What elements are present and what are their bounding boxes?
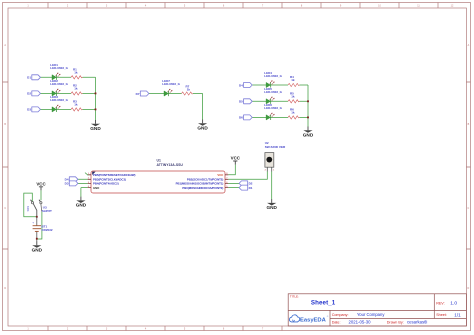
- svg-text:Sheet_1: Sheet_1: [311, 299, 336, 306]
- svg-text:C: C: [468, 207, 470, 210]
- svg-text:Company:: Company:: [332, 313, 349, 317]
- svg-text:1.0: 1.0: [450, 301, 457, 307]
- svg-text:1k: 1k: [74, 86, 78, 90]
- svg-text:1/1: 1/1: [454, 312, 461, 317]
- svg-text:D6: D6: [239, 116, 243, 120]
- svg-text:1k: 1k: [291, 94, 295, 98]
- svg-text:D: D: [4, 287, 6, 290]
- svg-text:VCC: VCC: [36, 182, 46, 187]
- svg-text:1k: 1k: [74, 70, 78, 74]
- svg-text:Sheet:: Sheet:: [436, 313, 447, 317]
- svg-text:1k: 1k: [74, 102, 78, 106]
- svg-text:D1: D1: [249, 186, 253, 190]
- svg-text:VCC: VCC: [217, 173, 223, 177]
- svg-text:LED-0603_G: LED-0603_G: [264, 74, 282, 78]
- svg-text:LED-0603_G: LED-0603_G: [162, 82, 180, 86]
- svg-text:Your Company: Your Company: [357, 312, 385, 317]
- svg-text:LED-0603_G: LED-0603_G: [50, 98, 68, 102]
- svg-text:PB0(MOSI/AIN0/OC0A/PCINT0): PB0(MOSI/AIN0/OC0A/PCINT0): [182, 186, 223, 190]
- svg-text:1k: 1k: [291, 110, 295, 114]
- svg-text:SW-520D VER: SW-520D VER: [265, 145, 286, 149]
- svg-text:SLIP2T: SLIP2T: [42, 209, 52, 213]
- svg-text:+: +: [32, 220, 34, 224]
- svg-text:Drawn By:: Drawn By:: [387, 321, 404, 325]
- svg-text:REV:: REV:: [436, 301, 444, 305]
- svg-text:GND: GND: [90, 126, 101, 131]
- svg-text:GND: GND: [76, 203, 87, 208]
- svg-text:D1: D1: [27, 76, 31, 80]
- svg-text:GND: GND: [303, 132, 314, 137]
- svg-text:D: D: [468, 287, 470, 290]
- svg-text:D3: D3: [27, 108, 31, 112]
- svg-text:D7: D7: [136, 92, 140, 96]
- svg-text:D3: D3: [65, 182, 69, 186]
- svg-text:EasyEDA: EasyEDA: [300, 317, 327, 323]
- svg-text:cesarkastli: cesarkastli: [407, 320, 427, 325]
- svg-text:PB5(PCINT5/RESET#/ADC0/dW): PB5(PCINT5/RESET#/ADC0/dW): [93, 173, 135, 177]
- svg-text:VCC: VCC: [231, 156, 241, 161]
- svg-text:LED-0603_G: LED-0603_G: [50, 82, 68, 86]
- svg-text:1k: 1k: [291, 78, 295, 82]
- svg-text:1k: 1k: [187, 88, 191, 92]
- svg-text:GND: GND: [93, 186, 99, 190]
- svg-text:LED-0603_G: LED-0603_G: [264, 106, 282, 110]
- svg-text:GND: GND: [197, 126, 208, 131]
- svg-text:LED-0603_G: LED-0603_G: [264, 90, 282, 94]
- svg-text:D2: D2: [27, 92, 31, 96]
- svg-text:D5: D5: [239, 100, 243, 104]
- svg-text:GND: GND: [266, 205, 277, 210]
- svg-text:2021-05-30: 2021-05-30: [349, 320, 372, 325]
- svg-text:LED-0603_G: LED-0603_G: [50, 66, 68, 70]
- svg-text:D4: D4: [239, 83, 243, 87]
- svg-text:TITLE:: TITLE:: [290, 295, 299, 299]
- svg-text:SW1: SW1: [26, 205, 30, 211]
- svg-text:Date:: Date:: [332, 321, 341, 325]
- svg-text:C: C: [4, 207, 6, 210]
- svg-text:CR2032: CR2032: [42, 228, 53, 232]
- svg-text:ATTINY13A-SSU: ATTINY13A-SSU: [157, 163, 184, 167]
- svg-text:GND: GND: [32, 247, 43, 252]
